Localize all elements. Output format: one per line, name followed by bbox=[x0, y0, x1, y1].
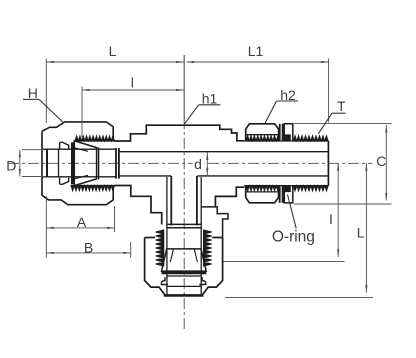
dimension L(branch) extension line bbox=[225, 297, 373, 299]
leader H bbox=[23, 99, 63, 122]
washer walls top bbox=[280, 124, 283, 141]
dimension I line bbox=[337, 163, 339, 257]
left port bore lines bbox=[43, 149, 117, 177]
o-ring boss bottom bbox=[284, 186, 293, 203]
left ferrule edge (thick) bbox=[71, 142, 74, 184]
run centerline bbox=[8, 162, 373, 164]
svg-text:T: T bbox=[337, 98, 346, 114]
left front ferrule bbox=[74, 141, 96, 186]
left nut outline bbox=[42, 122, 113, 205]
svg-text:C: C bbox=[376, 153, 386, 169]
branch thread right bbox=[204, 230, 212, 267]
dimension D line bbox=[19, 150, 21, 177]
branch tube stop shoulder bbox=[167, 224, 201, 227]
body bottom-right profile bbox=[201, 187, 244, 237]
left port counterbore wall bbox=[46, 149, 48, 177]
dimension C extension lines bbox=[294, 123, 392, 204]
branch inner bore walls bbox=[171, 176, 197, 226]
left nut thread top bbox=[75, 136, 115, 141]
o-ring seal bottom (filled) bbox=[284, 185, 291, 192]
dimension l extension line bbox=[81, 87, 83, 138]
svg-text:I: I bbox=[329, 211, 333, 227]
dimension C line bbox=[385, 125, 387, 200]
run bore top line bbox=[119, 151, 329, 153]
washer walls bottom bbox=[280, 186, 283, 203]
dimension D extension lines bbox=[22, 150, 45, 177]
dimension A label bbox=[77, 214, 87, 230]
tube stop shoulder bbox=[116, 148, 119, 179]
dimension d line bbox=[206, 152, 208, 175]
dimension I extension line bbox=[224, 261, 345, 263]
left back ferrule bbox=[60, 142, 69, 184]
dimension L line bbox=[46, 61, 183, 63]
svg-text:L1: L1 bbox=[248, 43, 264, 59]
label h2 bbox=[280, 87, 296, 103]
dimension B label bbox=[84, 239, 93, 255]
dimension B extension lines bbox=[46, 232, 130, 258]
dimension L1 line bbox=[187, 61, 329, 63]
svg-text:L: L bbox=[357, 225, 365, 241]
dimension B line bbox=[46, 252, 130, 254]
right end face bbox=[327, 141, 329, 186]
svg-text:D: D bbox=[6, 157, 16, 173]
branch thread left bbox=[156, 230, 164, 267]
dimension L(branch) line bbox=[365, 163, 367, 292]
left body mouth bbox=[98, 147, 100, 179]
dimension L extension line left bbox=[45, 59, 47, 124]
run bore bottom line bbox=[119, 175, 329, 177]
dimension I label bbox=[329, 211, 333, 227]
leader T bbox=[318, 113, 345, 134]
svg-text:d: d bbox=[194, 156, 202, 172]
dimension C label bbox=[376, 153, 386, 169]
dimension d label bbox=[193, 155, 205, 172]
right hex h2 bottom bbox=[246, 186, 279, 203]
dimension A line bbox=[46, 227, 114, 229]
leader h2 bbox=[265, 101, 298, 123]
branch nut outline bbox=[145, 238, 223, 296]
male thread bottom bbox=[244, 186, 328, 191]
male thread top bbox=[244, 136, 328, 141]
o-ring seal top (filled) bbox=[284, 134, 291, 141]
branch ferrule edge (thick) bbox=[162, 271, 207, 274]
svg-text:H: H bbox=[28, 85, 38, 101]
branch centerline bbox=[183, 55, 185, 331]
branch outer port walls bbox=[167, 177, 201, 295]
label O-ring bbox=[272, 229, 315, 246]
body top profile bbox=[115, 125, 245, 141]
dimension l label bbox=[131, 75, 134, 91]
dimension A extension lines bbox=[46, 196, 114, 232]
left nut thread bottom bbox=[71, 186, 115, 191]
branch back ferrule bbox=[161, 276, 205, 286]
body bottom-left profile bbox=[115, 186, 162, 225]
svg-text:A: A bbox=[77, 214, 87, 230]
svg-text:L: L bbox=[109, 43, 117, 59]
label h1 bbox=[202, 91, 218, 107]
label T bbox=[337, 98, 346, 114]
dimension D label bbox=[6, 157, 16, 173]
leader O-ring bbox=[288, 195, 297, 229]
right hex h2 top bbox=[246, 124, 279, 141]
left port inner step bbox=[58, 149, 60, 177]
dimension L1 label bbox=[248, 43, 264, 59]
o-ring boss top bbox=[284, 124, 293, 141]
leader h1 bbox=[185, 105, 221, 124]
branch front ferrule bbox=[162, 249, 207, 271]
svg-text:B: B bbox=[84, 239, 93, 255]
dimension l line bbox=[82, 89, 184, 91]
svg-text:l: l bbox=[131, 75, 134, 91]
dimension L1 extension line right bbox=[328, 59, 330, 123]
label H bbox=[28, 85, 38, 101]
dimension L(branch) label bbox=[357, 225, 365, 241]
svg-text:O-ring: O-ring bbox=[272, 229, 315, 246]
dimension L label bbox=[109, 43, 117, 59]
